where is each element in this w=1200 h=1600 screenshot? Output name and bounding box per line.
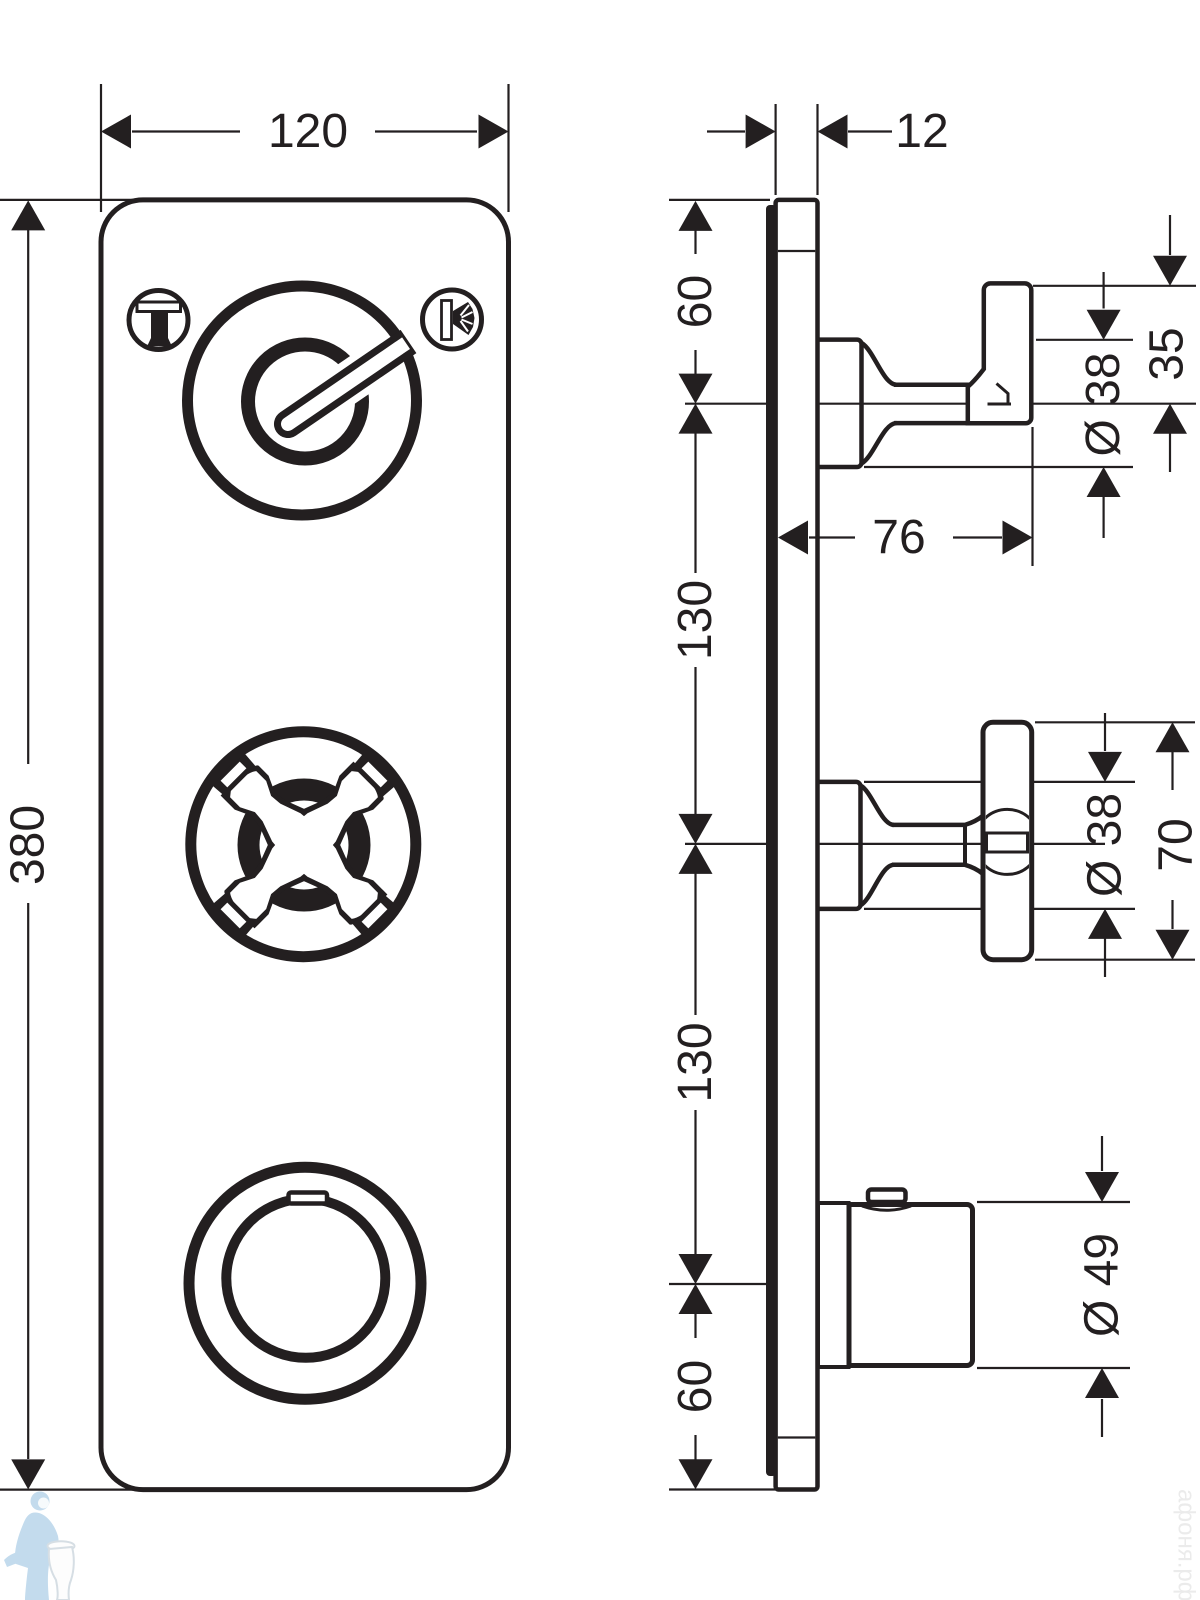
cross knob arm rims (272, 813, 388, 925)
extension line rosette 1 top (d38 dim) (1036, 339, 1133, 341)
extension line thermostat knob bottom (d49 dim) (977, 1367, 1130, 1369)
wall flange strip, side view (766, 205, 777, 1476)
dimension 76 (778, 521, 808, 555)
shower icon circle (423, 290, 482, 349)
svg-text:120: 120 (268, 105, 348, 158)
spout icon top bar (137, 302, 181, 312)
spout icon circle (129, 291, 188, 350)
svg-text:60: 60 (669, 1360, 722, 1413)
lever blade, side view (968, 283, 1032, 423)
extension line rosette 1 bottom (d38 dim) (864, 466, 1133, 468)
stem top line handle 1 (894, 382, 969, 387)
extension line thermostat knob top (d49 dim) (977, 1201, 1130, 1203)
svg-text:35: 35 (1141, 327, 1194, 380)
extension line plate right edge (120 dim) (507, 84, 509, 212)
thermostat knob inner circle (226, 1199, 385, 1358)
dimension d49 (1085, 1172, 1119, 1202)
spout icon stream (151, 312, 168, 342)
thermostat knob outer circle (189, 1167, 421, 1399)
extension line plate top, side view (60 dim) (669, 199, 770, 201)
svg-text:12: 12 (895, 105, 948, 158)
rosette 3, side view (818, 1203, 849, 1367)
rosette 2, side view (818, 782, 861, 909)
extension line plate top left (380 dim) (0, 199, 146, 201)
svg-text:Ø 38: Ø 38 (1079, 793, 1132, 897)
corner tangent line top of plate profile (778, 250, 816, 252)
rosette 1, side view (818, 340, 862, 467)
watermark plumber figure (4, 1492, 75, 1600)
extension line plate left edge (120 dim) (100, 84, 102, 212)
extension line lever top (35 dim) (1033, 285, 1196, 287)
lever position mark, side view (997, 384, 1009, 403)
plate profile bar, side view (12 mm) (776, 200, 818, 1490)
cross knob outer circle (191, 732, 416, 957)
extension line cross knob bottom (70 dim) (1035, 959, 1195, 961)
lever handle, front view (290, 359, 383, 423)
extension line plate front face (12 dim) (816, 104, 818, 195)
centre line handle 1 (685, 403, 1196, 405)
extension line cross knob top (70 dim) (1035, 721, 1195, 723)
svg-text:Ø 38: Ø 38 (1077, 352, 1130, 456)
dimension 60 top (679, 201, 713, 231)
dimension 70 (1156, 722, 1190, 752)
svg-text:70: 70 (1150, 818, 1200, 871)
stem-disc boundary handle 2 (963, 826, 967, 864)
cross knob arm tip caps (352, 893, 398, 939)
stem bottom line handle 1 (894, 421, 969, 426)
thermostat knob index tab (289, 1193, 328, 1204)
cross knob arm tip slots (362, 903, 388, 929)
hub rectangle inside disc (987, 833, 1028, 852)
shower icon spray (453, 302, 475, 335)
escutcheon plate, front view (120x380) (101, 200, 509, 1490)
extension line lever face (76 dim) (1031, 427, 1033, 566)
centre line handle 3 (669, 1283, 793, 1285)
extension line plate bottom left (380 dim) (0, 1488, 146, 1490)
trumpet stem handle 2, side view (861, 786, 895, 825)
index tab on cylinder, side view (868, 1190, 906, 1203)
cross knob disc, side view (70 mm) (983, 722, 1032, 959)
svg-text:Ø 49: Ø 49 (1076, 1233, 1129, 1337)
extension line rosette 2 bottom (d38 dim) (864, 908, 1135, 910)
extension line rosette 2 top (d38 dim) (864, 781, 1135, 783)
lever knob outer circle (188, 286, 417, 515)
dimension 35 (1153, 256, 1187, 286)
dimension 60 bottom (679, 1284, 713, 1314)
dimension 380 (11, 200, 45, 230)
svg-text:60: 60 (669, 275, 722, 328)
svg-text:130: 130 (669, 580, 722, 660)
dimension 130 upper (679, 404, 713, 434)
lever tip face (396, 337, 410, 353)
svg-text:130: 130 (669, 1022, 722, 1102)
trumpet stem handle 1, side view (862, 343, 897, 385)
corner tangent line bottom of plate profile (778, 1436, 816, 1438)
svg-text:76: 76 (872, 511, 925, 564)
svg-text:380: 380 (2, 805, 55, 885)
extension line plate bottom, side view (60 dim) (669, 1488, 815, 1490)
lever mark underline (988, 403, 1012, 406)
dimension 130 lower (679, 844, 713, 874)
cross knob inner ring (249, 790, 360, 901)
cross knob arm white cores (281, 822, 378, 919)
dimension 12 (746, 115, 776, 149)
centre line handle 2 (685, 843, 1105, 845)
extension line plate back face (12 dim) (774, 104, 776, 195)
thermostat cylinder, side view (d49) (849, 1205, 973, 1366)
dimension d38 middle (1088, 752, 1122, 782)
svg-text:афоня.рф: афоня.рф (1173, 1489, 1200, 1600)
dimension 120 (101, 115, 131, 149)
shower icon head bar (442, 301, 452, 340)
dimension d38 top (1087, 310, 1121, 340)
lever knob inner ring (248, 345, 362, 459)
